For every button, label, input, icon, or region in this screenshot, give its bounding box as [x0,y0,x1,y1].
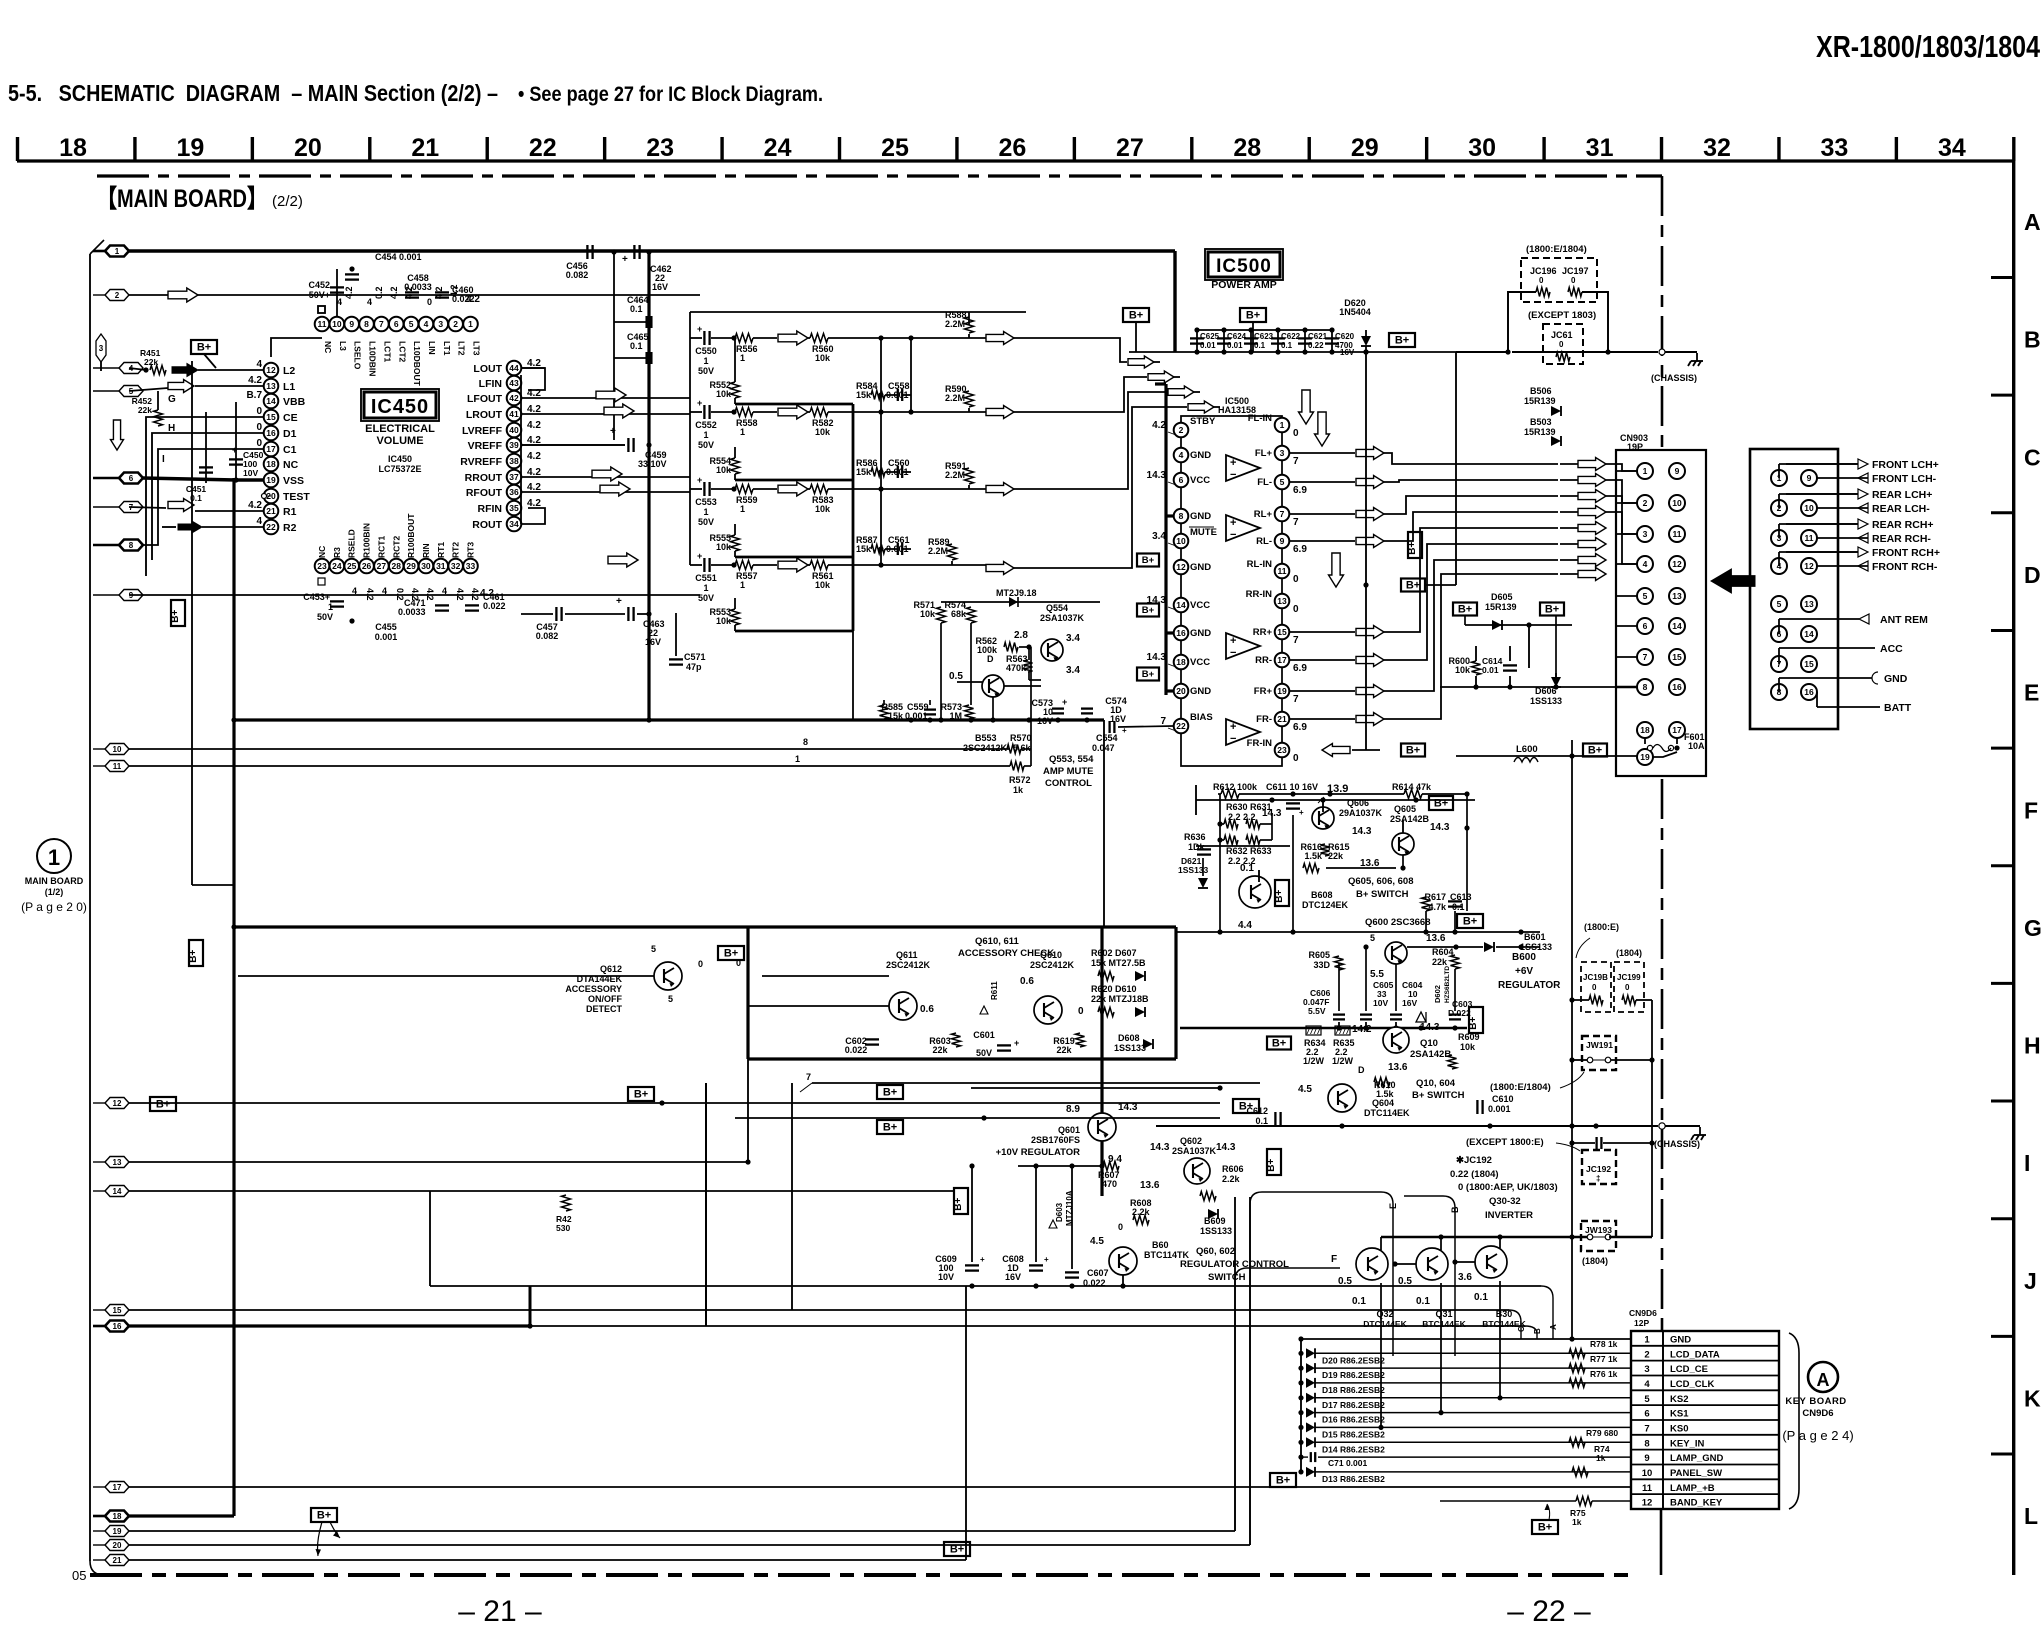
svg-text:NC: NC [317,546,327,558]
svg-text:4.2: 4.2 [527,420,541,431]
svg-text:D: D [2024,562,2041,588]
svg-text:FRONT LCH-: FRONT LCH- [1872,473,1937,485]
svg-text:D605: D605 [1491,592,1513,602]
svg-text:+: + [1230,635,1236,647]
svg-text:RR+: RR+ [1253,627,1273,638]
svg-text:+: + [980,1255,985,1264]
svg-text:12: 12 [1176,562,1186,572]
svg-text:D602: D602 [1433,985,1442,1003]
svg-text:+: + [1230,457,1236,469]
svg-text:4.2: 4.2 [527,451,541,462]
svg-text:KEY_IN: KEY_IN [1670,1438,1704,1449]
svg-text:0.0033: 0.0033 [398,607,426,617]
svg-text:7: 7 [1293,517,1299,528]
svg-text:B60: B60 [1152,1240,1169,1250]
svg-text:GND: GND [1190,686,1211,697]
svg-text:17: 17 [1277,655,1287,665]
svg-text:ROUT: ROUT [472,519,502,531]
svg-text:R77 1k: R77 1k [1590,1354,1618,1364]
svg-text:29A1037K: 29A1037K [1339,808,1383,818]
svg-text:10k: 10k [1455,665,1471,675]
svg-text:MUTE: MUTE [1190,527,1217,538]
svg-text:20: 20 [294,134,322,162]
svg-text:B+: B+ [1142,669,1155,680]
svg-text:1: 1 [115,247,120,256]
svg-text:0: 0 [256,422,262,433]
svg-text:B+: B+ [1274,890,1285,903]
svg-text:8.9: 8.9 [1066,1104,1080,1115]
svg-text:(P a g e 2 4): (P a g e 2 4) [1782,1428,1853,1443]
svg-text:AMP MUTE: AMP MUTE [1043,766,1094,777]
svg-text:+: + [1014,1038,1019,1048]
svg-text:0.047: 0.047 [1092,743,1115,753]
svg-text:B+: B+ [1545,604,1559,616]
svg-text:2.2M: 2.2M [928,546,948,556]
svg-text:0: 0 [1293,604,1299,615]
svg-text:34: 34 [1938,134,1966,162]
svg-text:0.01: 0.01 [1482,665,1499,675]
svg-text:B506: B506 [1530,386,1552,396]
svg-text:0.022: 0.022 [452,294,475,304]
svg-text:B+: B+ [188,950,199,963]
svg-text:D16 R86.2ESB2: D16 R86.2ESB2 [1322,1415,1385,1425]
svg-text:LCD_CLK: LCD_CLK [1670,1379,1714,1390]
svg-text:18: 18 [1640,725,1650,735]
svg-text:0: 0 [1592,983,1597,992]
svg-text:0.082: 0.082 [566,270,589,280]
svg-text:JC196: JC196 [1530,266,1557,276]
svg-text:B: B [1450,1206,1460,1213]
svg-text:4: 4 [424,319,429,329]
svg-text:RFIN: RFIN [478,503,503,515]
svg-text:VSS: VSS [283,475,304,487]
svg-text:LCD_CE: LCD_CE [1670,1364,1708,1375]
svg-text:6.9: 6.9 [1293,485,1307,496]
svg-text:+10V REGULATOR: +10V REGULATOR [996,1147,1081,1158]
svg-text:VREFF: VREFF [468,440,503,452]
svg-text:1: 1 [703,507,708,517]
svg-text:RT1: RT1 [436,542,446,558]
svg-text:0: 0 [1559,340,1564,349]
svg-text:(EXCEPT 1803): (EXCEPT 1803) [1528,310,1596,321]
svg-text:4: 4 [256,516,262,527]
svg-text:25: 25 [347,561,357,571]
svg-text:D: D [987,654,994,664]
svg-text:50V: 50V [698,517,714,527]
svg-text:C625: C625 [1200,332,1220,341]
svg-text:24: 24 [764,134,792,162]
svg-text:0.001: 0.001 [905,711,928,721]
svg-text:05: 05 [72,1568,86,1583]
svg-text:FL-: FL- [1257,477,1272,488]
svg-text:14.3: 14.3 [1118,1102,1138,1113]
svg-text:5: 5 [668,994,673,1004]
svg-text:(1804): (1804) [1616,948,1642,958]
svg-text:1: 1 [740,504,745,514]
svg-text:21: 21 [266,506,276,516]
svg-text:21: 21 [411,134,439,162]
svg-text:40: 40 [509,425,519,435]
svg-text:KS1: KS1 [1670,1409,1689,1420]
svg-text:20: 20 [1176,686,1186,696]
svg-text:(2/2): (2/2) [272,193,303,210]
svg-text:CONTROL: CONTROL [1045,778,1092,789]
svg-text:6.9: 6.9 [1293,722,1307,733]
svg-text:JC19B: JC19B [1583,973,1608,982]
svg-text:R620 D610: R620 D610 [1091,984,1137,994]
svg-text:2: 2 [453,319,458,329]
svg-text:DTC144EK: DTC144EK [1363,1319,1407,1329]
svg-text:0: 0 [1293,753,1299,764]
svg-text:B+: B+ [1142,605,1155,616]
svg-text:LVREFF: LVREFF [462,425,503,437]
svg-text:17: 17 [113,1483,122,1492]
svg-text:15: 15 [1672,652,1682,662]
svg-text:10: 10 [332,319,342,329]
svg-text:CE: CE [283,412,298,424]
svg-text:R611: R611 [990,981,999,1000]
svg-text:8: 8 [364,319,369,329]
svg-text:18: 18 [266,459,276,469]
svg-text:JC197: JC197 [1562,266,1589,276]
svg-text:‡: ‡ [1596,1174,1600,1183]
svg-text:+: + [697,475,702,485]
svg-text:CN9D6: CN9D6 [1802,1408,1833,1419]
svg-text:C453+: C453+ [303,592,330,602]
svg-text:RL+: RL+ [1254,509,1273,520]
svg-text:0 (1800:AEP, UK/1803): 0 (1800:AEP, UK/1803) [1458,1182,1558,1193]
svg-text:3.4: 3.4 [1152,531,1166,542]
svg-text:0: 0 [736,958,741,968]
svg-text:16V: 16V [652,282,668,292]
svg-text:8: 8 [803,737,808,747]
svg-text:Q605: Q605 [1394,804,1416,814]
svg-text:470: 470 [1102,1179,1117,1189]
svg-text:FR+: FR+ [1254,686,1273,697]
svg-text:DTC114EK: DTC114EK [1364,1108,1410,1118]
svg-text:42: 42 [509,393,519,403]
svg-text:1SS133: 1SS133 [1200,1226,1232,1236]
svg-text:5: 5 [651,944,656,954]
svg-text:RT2: RT2 [451,542,461,558]
svg-text:(1800:E): (1800:E) [1584,922,1619,932]
svg-text:LROUT: LROUT [466,409,503,421]
svg-text:2: 2 [1179,425,1184,435]
svg-text:C454 0.001: C454 0.001 [375,252,422,262]
svg-text:+: + [616,596,622,607]
svg-text:0.1: 0.1 [1254,341,1266,350]
svg-text:14.3: 14.3 [1147,652,1167,663]
svg-text:IC450: IC450 [371,396,429,418]
svg-text:I: I [2024,1150,2030,1176]
svg-text:FR-IN: FR-IN [1247,738,1272,749]
svg-text:1: 1 [703,430,708,440]
svg-text:LSELO: LSELO [353,341,363,370]
svg-text:0.5: 0.5 [949,671,963,682]
svg-text:5: 5 [1644,1394,1650,1405]
svg-text:R636: R636 [1184,832,1206,842]
svg-text:Q10, 604: Q10, 604 [1416,1078,1456,1089]
svg-text:14.3: 14.3 [1147,470,1167,481]
svg-text:8: 8 [1643,682,1648,692]
svg-text:5: 5 [1280,477,1285,487]
svg-text:REAR LCH+: REAR LCH+ [1872,489,1932,501]
svg-text:3.6: 3.6 [1458,1272,1472,1283]
svg-text:GND: GND [1670,1335,1691,1346]
svg-text:LCD_DATA: LCD_DATA [1670,1349,1720,1360]
svg-text:0.22: 0.22 [1308,341,1324,350]
svg-text:15: 15 [266,412,276,422]
svg-text:+: + [1230,517,1236,529]
svg-text:R3: R3 [332,547,342,558]
svg-text:LFOUT: LFOUT [467,393,503,405]
svg-text:2: 2 [115,291,120,300]
svg-text:12P: 12P [1634,1318,1649,1328]
svg-text:1: 1 [740,427,745,437]
svg-text:29: 29 [1351,134,1379,162]
svg-text:36: 36 [509,487,519,497]
svg-text:1k: 1k [1572,1517,1582,1527]
svg-text:15k: 15k [888,711,904,721]
svg-text:12: 12 [1642,1498,1653,1509]
svg-text:15k: 15k [856,544,872,554]
svg-text:C601: C601 [973,1030,995,1040]
svg-text:11: 11 [1673,529,1682,539]
svg-text:+: + [232,445,237,455]
svg-text:NC: NC [283,459,299,471]
svg-text:50V+: 50V+ [309,290,330,300]
svg-text:15R139: 15R139 [1524,427,1556,437]
svg-text:2SB1760FS: 2SB1760FS [1031,1135,1080,1145]
svg-text:−: − [1230,647,1236,659]
svg-text:50V: 50V [317,612,333,622]
svg-text:ACCESSORY: ACCESSORY [565,984,622,994]
svg-text:50V: 50V [698,593,714,603]
svg-text:1/2W: 1/2W [1332,1056,1354,1066]
svg-text:XR-1800/1803/1804: XR-1800/1803/1804 [1816,29,2041,64]
svg-text:22k: 22k [138,405,152,415]
svg-text:Q10: Q10 [1420,1038,1438,1049]
svg-text:REGULATOR: REGULATOR [1498,980,1561,991]
svg-text:RL-: RL- [1256,536,1272,547]
svg-text:3.4: 3.4 [1066,633,1080,644]
svg-text:LT2: LT2 [457,341,467,356]
svg-text:B+: B+ [950,1544,964,1556]
svg-text:Q604: Q604 [1372,1098,1394,1108]
svg-text:0.1: 0.1 [1416,1296,1430,1307]
svg-text:4: 4 [382,586,387,596]
svg-text:6: 6 [129,474,134,483]
svg-text:KEY BOARD: KEY BOARD [1785,1396,1846,1407]
svg-text:C620: C620 [1335,332,1355,341]
svg-text:1: 1 [795,754,800,764]
svg-text:3: 3 [1280,448,1285,458]
svg-text:23: 23 [646,134,674,162]
svg-text:R76 1k: R76 1k [1590,1369,1618,1379]
svg-text:12: 12 [113,1099,122,1108]
svg-text:5-5. SCHEMATIC DIAGRAM – M: 5-5. SCHEMATIC DIAGRAM – MAIN Section (2… [8,80,498,106]
svg-text:RR-IN: RR-IN [1246,589,1273,600]
svg-text:28: 28 [1233,134,1261,162]
svg-text:14.2: 14.2 [1352,1024,1372,1035]
svg-text:RL-IN: RL-IN [1247,559,1272,570]
svg-text:+: + [622,254,628,265]
svg-text:33D: 33D [1313,960,1330,970]
svg-text:8: 8 [1179,511,1184,521]
svg-text:B+: B+ [1246,310,1260,322]
svg-text:BATT: BATT [1884,702,1912,714]
svg-text:6: 6 [1643,621,1648,631]
svg-text:HZS6B2LTD: HZS6B2LTD [1444,966,1451,1003]
svg-text:H: H [168,423,175,434]
svg-text:0: 0 [1078,1006,1084,1017]
svg-text:10k: 10k [815,353,831,363]
svg-text:1: 1 [1644,1335,1650,1346]
svg-text:1SS133: 1SS133 [1530,696,1562,706]
svg-text:FL-IN: FL-IN [1248,413,1272,424]
svg-text:4: 4 [442,586,447,596]
svg-text:0.1: 0.1 [1240,863,1254,874]
svg-text:L2: L2 [283,365,295,377]
svg-text:Q32: Q32 [1376,1309,1393,1319]
svg-text:B609: B609 [1204,1216,1226,1226]
svg-text:5: 5 [409,319,414,329]
svg-text:41: 41 [509,409,519,419]
svg-text:33 10V: 33 10V [638,459,667,469]
svg-text:16V: 16V [1402,998,1417,1008]
svg-text:B+: B+ [883,1087,897,1099]
svg-text:C554: C554 [1096,733,1118,743]
svg-text:• See page 27 for IC Block Dia: • See page 27 for IC Block Diagram. [518,83,823,106]
svg-text:0.1: 0.1 [1281,341,1293,350]
svg-text:7: 7 [1293,694,1299,705]
svg-text:C1: C1 [283,444,297,456]
svg-text:16V: 16V [1110,714,1126,724]
svg-text:13: 13 [1804,599,1814,609]
svg-text:(CHASSIS): (CHASSIS) [1651,373,1697,383]
svg-text:LAMP_GND: LAMP_GND [1670,1453,1723,1464]
svg-text:FRONT RCH-: FRONT RCH- [1872,561,1938,573]
svg-text:B+: B+ [1272,1038,1286,1050]
svg-text:F: F [1331,1254,1337,1265]
svg-text:+: + [1299,808,1304,817]
svg-text:FRONT RCH+: FRONT RCH+ [1872,547,1940,559]
svg-text:Q602: Q602 [1180,1136,1202,1146]
svg-text:10V: 10V [1373,998,1388,1008]
svg-text:I: I [162,454,165,465]
svg-text:Q611: Q611 [896,950,918,960]
svg-text:7: 7 [1644,1423,1649,1434]
svg-text:LCT1: LCT1 [382,341,392,363]
svg-text:C611 10 16V: C611 10 16V [1266,782,1318,792]
svg-text:GND: GND [1190,562,1211,573]
svg-text:3: 3 [1643,529,1648,539]
svg-text:SWITCH: SWITCH [1208,1272,1246,1283]
svg-text:JC61: JC61 [1551,330,1573,340]
svg-text:6: 6 [1179,475,1184,485]
svg-text:D20 R86.2ESB2: D20 R86.2ESB2 [1322,1355,1385,1365]
svg-text:39: 39 [509,440,519,450]
svg-text:C610: C610 [1492,1094,1514,1104]
svg-text:LFIN: LFIN [479,378,502,390]
svg-text:3: 3 [1644,1364,1649,1375]
svg-text:15: 15 [1277,627,1287,637]
svg-text:2SA1037K: 2SA1037K [1040,613,1085,623]
svg-text:0.01: 0.01 [1227,341,1243,350]
svg-text:JC199: JC199 [1617,973,1641,982]
svg-text:C571: C571 [684,652,706,662]
svg-text:LT3: LT3 [472,341,482,356]
svg-text:C623: C623 [1254,332,1274,341]
svg-text:22k: 22k [1432,957,1448,967]
svg-text:4: 4 [367,297,372,307]
svg-text:ON/OFF: ON/OFF [588,994,622,1004]
svg-text:26: 26 [362,561,372,571]
svg-text:C624: C624 [1227,332,1247,341]
svg-text:JW191: JW191 [1586,1040,1613,1050]
svg-text:G: G [168,394,176,405]
svg-text:0: 0 [1293,574,1299,585]
svg-text:RIN: RIN [421,543,431,558]
svg-text:BIAS: BIAS [1190,712,1213,723]
svg-text:IC450: IC450 [388,454,412,464]
svg-text:Q612: Q612 [600,964,622,974]
svg-text:20: 20 [113,1541,122,1550]
svg-text:R602 D607: R602 D607 [1091,948,1137,958]
svg-text:4.2: 4.2 [425,588,435,601]
svg-text:33: 33 [466,561,476,571]
svg-text:D13 R86.2ESB2: D13 R86.2ESB2 [1322,1474,1385,1484]
svg-text:B+: B+ [1468,1017,1479,1030]
svg-text:10A: 10A [1688,741,1705,751]
svg-text:REAR LCH-: REAR LCH- [1872,503,1930,515]
svg-text:D18 R86.2ESB2: D18 R86.2ESB2 [1322,1385,1385,1395]
svg-text:4: 4 [1644,1379,1650,1390]
svg-text:【MAIN BOARD】: 【MAIN BOARD】 [97,185,267,213]
svg-text:4: 4 [256,359,262,370]
svg-text:0.022: 0.022 [483,601,506,611]
svg-text:L1: L1 [283,381,295,393]
svg-text:LAMP_+B: LAMP_+B [1670,1483,1715,1494]
svg-text:+: + [1230,721,1236,733]
svg-text:50V: 50V [976,1048,992,1058]
svg-text:L10DBOUT: L10DBOUT [412,341,422,387]
svg-text:B+: B+ [1588,745,1602,757]
svg-text:B+: B+ [156,1099,170,1111]
svg-text:L600: L600 [1516,744,1538,755]
svg-text:FR-: FR- [1256,714,1272,725]
svg-text:4.5: 4.5 [1090,1236,1104,1247]
svg-text:GND: GND [1190,628,1211,639]
svg-text:31: 31 [1586,134,1614,162]
svg-text:RT3: RT3 [466,542,476,558]
svg-text:14.3: 14.3 [1430,822,1450,833]
svg-text:A: A [1549,1324,1558,1330]
svg-text:11: 11 [1642,1483,1653,1494]
svg-text:1/2W: 1/2W [1303,1056,1325,1066]
svg-text:C452: C452 [308,280,330,290]
svg-text:14: 14 [1804,629,1814,639]
svg-text:2: 2 [1644,1349,1649,1360]
svg-text:6.9: 6.9 [1293,544,1307,555]
svg-text:4.4: 4.4 [1238,920,1252,931]
svg-text:5.5V: 5.5V [1308,1006,1326,1016]
svg-text:5: 5 [1777,599,1782,609]
svg-text:−: − [1230,469,1236,481]
svg-text:10V: 10V [243,468,258,478]
svg-text:A: A [2024,209,2041,235]
svg-text:13: 13 [1277,596,1287,606]
